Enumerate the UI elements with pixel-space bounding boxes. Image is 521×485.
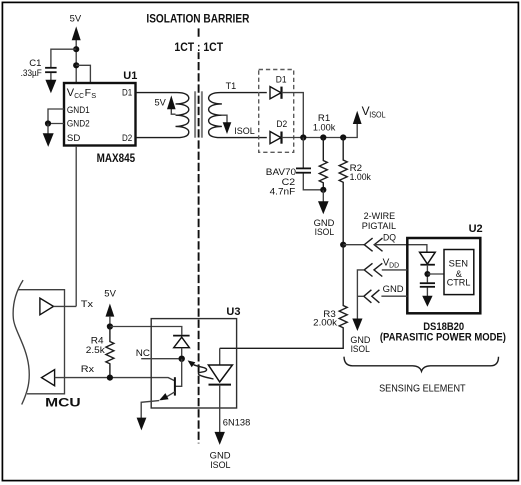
svg-text:D1: D1	[276, 74, 287, 85]
svg-text:DD: DD	[389, 261, 399, 270]
pigtail chevrons VDD	[364, 263, 382, 276]
power arrow 5V (primary sense)	[155, 95, 176, 114]
svg-text:ISOLATION BARRIER: ISOLATION BARRIER	[146, 11, 249, 25]
svg-text:GND: GND	[383, 284, 404, 295]
svg-text:2.00k: 2.00k	[313, 318, 337, 329]
capacitor C2	[270, 138, 324, 198]
brace sensing element	[344, 357, 499, 372]
wire GND pin to rail	[357, 295, 363, 297]
svg-text:ISOL: ISOL	[351, 344, 370, 355]
pigtail chevrons DQ	[364, 238, 382, 251]
resistor R3	[220, 245, 348, 349]
svg-text:T1: T1	[226, 81, 237, 92]
wire cap to ground	[426, 288, 428, 297]
pigtail chevrons GND	[364, 290, 380, 303]
wire Tx to SD	[54, 305, 77, 307]
transformer T1 primary winding	[136, 93, 189, 138]
ground GND ISOL (sensor rail)	[350, 319, 370, 356]
power 5V (top left)	[70, 13, 82, 40]
power 5V (Rx pullup)	[104, 288, 116, 326]
svg-text:CTRL: CTRL	[447, 278, 471, 288]
svg-text:6N138: 6N138	[223, 417, 251, 428]
wire U2 GND pin	[381, 295, 407, 297]
svg-text:Rx: Rx	[81, 364, 95, 375]
svg-text:SD: SD	[67, 133, 80, 144]
wire node to collector	[175, 359, 182, 387]
diode D2	[270, 119, 287, 144]
wire emitter to ground	[141, 401, 159, 418]
wire diode to cap	[426, 265, 428, 283]
wire U2 VDD pin	[382, 269, 408, 271]
svg-text:D1: D1	[122, 87, 132, 98]
svg-text:D2: D2	[122, 133, 132, 144]
transformer T1 secondary winding	[209, 93, 267, 138]
svg-text:F: F	[85, 87, 91, 99]
pin label VCC FS	[67, 87, 96, 100]
node (U2 internal)	[424, 271, 430, 277]
node dot R1/C2 gnd	[320, 187, 326, 193]
svg-text:PIGTAIL: PIGTAIL	[362, 221, 396, 232]
buffer Rx (MCU)	[42, 364, 95, 386]
svg-text:U1: U1	[123, 70, 137, 82]
wire node to SEN CTRL	[427, 273, 444, 275]
node dot R2 tap	[340, 134, 346, 140]
resistor R2	[339, 138, 371, 245]
pin NC stub	[136, 348, 179, 359]
wire DQ node to pigtail	[343, 244, 364, 246]
node dot R1 tap	[320, 134, 326, 140]
wire pigtail to U2 DQ pin	[374, 245, 427, 253]
svg-text:MCU: MCU	[45, 398, 80, 410]
svg-text:S: S	[91, 91, 96, 100]
diode D1	[270, 74, 287, 98]
svg-text:ISOL: ISOL	[210, 460, 230, 471]
svg-text:5V: 5V	[70, 13, 82, 24]
node VCC/C1 junction	[73, 46, 79, 52]
node photodiode/collector	[179, 356, 185, 362]
wire SD pin to MCU Tx	[75, 146, 77, 306]
svg-text:5V: 5V	[104, 288, 116, 299]
wire junction to ground	[47, 124, 49, 134]
resistor R1	[319, 138, 327, 190]
svg-text:CC: CC	[74, 91, 84, 100]
ground (C1)	[45, 80, 56, 93]
buffer Tx (MCU)	[40, 298, 93, 315]
svg-text:D2: D2	[276, 119, 287, 130]
svg-text:ISOL: ISOL	[234, 126, 255, 137]
svg-text:NC: NC	[136, 348, 150, 359]
label 2-WIRE PIGTAIL	[362, 211, 396, 232]
IC U1 MAX845	[64, 70, 137, 165]
node 5V/R4/U3	[107, 323, 113, 329]
svg-text:5V: 5V	[155, 98, 167, 109]
label R1 1.00k	[313, 113, 336, 133]
svg-text:DQ: DQ	[383, 232, 396, 243]
optocoupler U3 box	[151, 306, 240, 408]
svg-text:U2: U2	[469, 223, 483, 235]
label 1CT : 1CT	[172, 39, 226, 54]
svg-text:1.00k: 1.00k	[350, 172, 372, 183]
node Rx/R4	[107, 375, 113, 381]
svg-text:.33µF: .33µF	[21, 68, 42, 79]
resistor R4	[86, 327, 114, 378]
wire C1 to ground	[50, 73, 52, 80]
svg-text:ISOL: ISOL	[315, 227, 335, 238]
svg-text:GND1: GND1	[67, 105, 90, 116]
transformer core	[195, 91, 202, 137]
photodiode (U3)	[173, 336, 190, 356]
svg-text:4.7nF: 4.7nF	[270, 187, 296, 198]
light arrows (optocoupler)	[188, 360, 214, 379]
wire VDD to gnd rail	[357, 270, 364, 319]
node dot C2 tap	[300, 134, 306, 140]
wire 5V feed down to U1 VCC	[75, 39, 77, 83]
svg-text:Tx: Tx	[81, 299, 94, 310]
ground GND ISOL (R1)	[314, 201, 335, 238]
wire junction to FS pin	[76, 65, 90, 83]
dual diode BAV70 dashed package box	[259, 70, 294, 153]
power arrow V_ISOL	[353, 104, 386, 124]
LED (U3 input)	[208, 348, 232, 432]
svg-text:1CT : 1CT: 1CT : 1CT	[174, 40, 223, 54]
svg-text:U3: U3	[226, 306, 240, 318]
node GND junction	[45, 120, 51, 126]
svg-text:(PARASITIC POWER MODE): (PARASITIC POWER MODE)	[380, 332, 506, 344]
wire GND1 / GND2 pins	[48, 109, 64, 124]
ground GND ISOL (6N138)	[210, 432, 231, 471]
block SEN & CTRL	[444, 250, 474, 295]
wire D1 cathode to node	[282, 93, 304, 138]
arrow ISOL (secondary sense)	[222, 115, 255, 137]
svg-text:GND2: GND2	[67, 118, 90, 129]
svg-text:1.00k: 1.00k	[313, 122, 336, 133]
svg-text:SENSING ELEMENT: SENSING ELEMENT	[379, 383, 466, 394]
node VCC/FS junction	[73, 62, 79, 68]
IC U2 DS18B20	[407, 223, 482, 313]
isolation barrier dashed line	[198, 28, 200, 443]
ground (U2 internal)	[422, 296, 432, 307]
wire V_ISOL node line	[282, 123, 358, 138]
wire Rx line to transistor base	[55, 378, 175, 381]
wire 5V rail to photodiode	[110, 327, 182, 335]
diode (U2 internal)	[420, 252, 436, 264]
wire node to ground	[322, 190, 324, 202]
ground (transistor emitter)	[137, 418, 147, 431]
node DQ	[340, 242, 346, 248]
transistor (U3 output)	[159, 377, 175, 400]
label VDD	[383, 258, 400, 270]
MCU outline	[13, 280, 81, 410]
ground (U1 GND1/GND2)	[43, 133, 54, 147]
svg-text:2.5k: 2.5k	[86, 345, 105, 356]
svg-text:MAX845: MAX845	[97, 153, 136, 165]
svg-text:SEN: SEN	[449, 259, 468, 269]
capacitor (U2 internal)	[420, 283, 435, 287]
wire junction to C1	[51, 49, 76, 67]
svg-text:ISOL: ISOL	[369, 111, 386, 120]
capacitor C1	[21, 58, 57, 79]
